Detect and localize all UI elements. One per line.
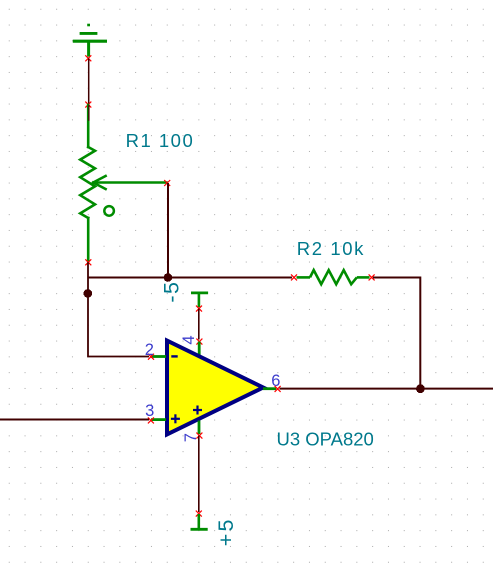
wire output [280,388,493,390]
supply -5 bar [191,293,208,308]
pin 7 lead [198,421,201,435]
supply +5 bar [191,514,208,529]
terminal x supply -5 [196,306,202,312]
svg-text:7: 7 [182,433,200,442]
pin 2 lead [151,355,166,358]
pin 3 lead [151,418,166,421]
terminal x pot bottom [85,259,91,265]
terminal x pin 3 [148,417,154,423]
svg-text:3: 3 [145,402,154,420]
wire overlap at pot top [88,105,90,121]
svg-text:6: 6 [271,372,280,390]
plus input mark [171,414,180,423]
terminal x R2 left [291,274,297,280]
svg-text:2: 2 [145,341,154,359]
wire supply -5 to pin 4 [198,309,200,340]
pin 4 lead [198,342,201,356]
op-amp U3 [167,341,263,435]
terminal x pot top [85,102,91,108]
wire pin 7 to supply [198,436,200,512]
terminal x supply +5 [196,511,202,517]
wire ground to pot [88,58,90,104]
wire input to pin 3 [0,419,149,421]
svg-text:U3 OPA820: U3 OPA820 [277,429,374,450]
terminal x pin 4 [196,339,202,345]
ground [73,25,107,57]
junction feedback [164,273,173,282]
svg-text:-5: -5 [160,281,184,303]
svg-text:+5: +5 [214,517,238,546]
resistor R2 [297,270,370,284]
plus supply mark [193,406,202,415]
terminal x pin 2 [148,354,154,360]
minus input mark [171,355,177,357]
wire R2 to output node [373,278,420,389]
terminal x pin 6 [275,386,281,392]
terminal x R2 right [369,274,375,280]
pin 6 lead [263,387,276,390]
junction output [416,384,425,393]
terminal x ground [85,55,91,61]
potentiometer R1 [80,105,166,261]
wire feedback horizontal [88,277,292,279]
terminal x wiper right [164,180,170,186]
wire wiper down [167,183,169,278]
junction left [84,289,93,298]
wire pot bottom down and to pin2 [88,262,149,356]
svg-text:R1 100: R1 100 [126,130,195,151]
svg-text:R2 10k: R2 10k [297,238,365,259]
terminal x pin 7 [196,433,202,439]
svg-text:4: 4 [180,335,198,344]
label o wiper [104,206,114,216]
